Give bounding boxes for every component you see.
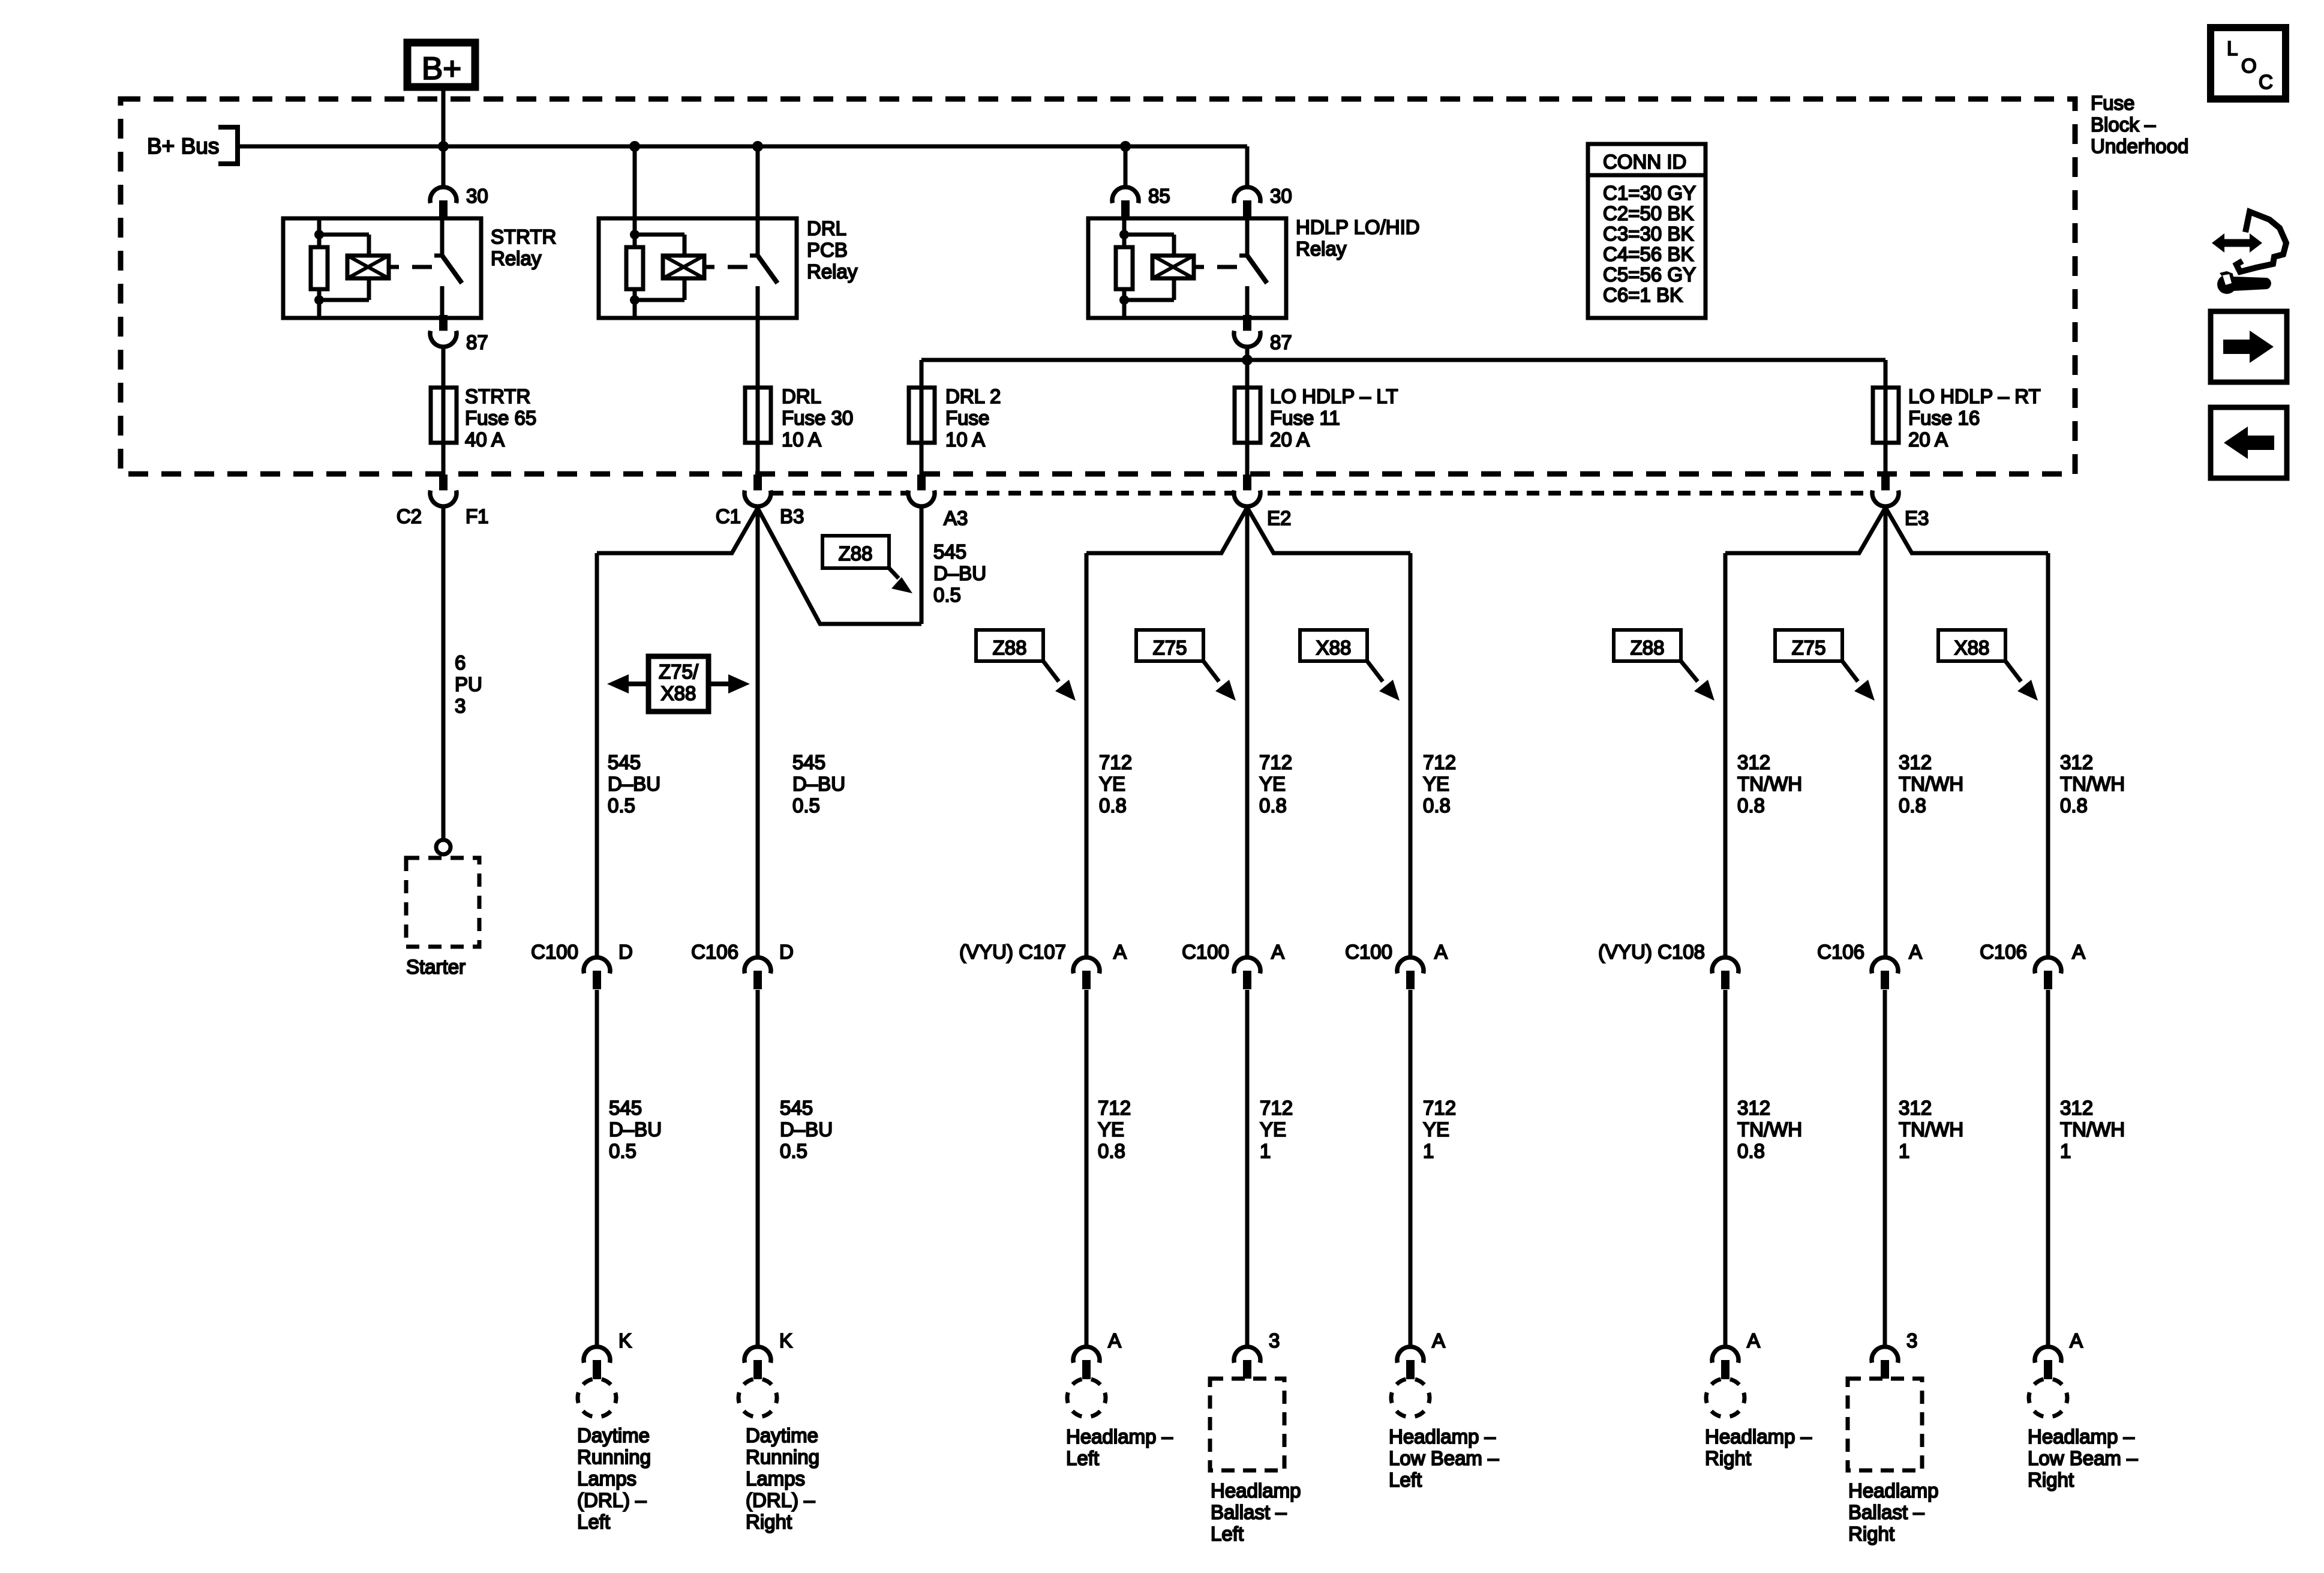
svg-text:312: 312: [1737, 1097, 1770, 1119]
svg-text:Fuse 30: Fuse 30: [782, 407, 853, 429]
svg-text:D: D: [618, 941, 633, 963]
svg-text:Headlamp –: Headlamp –: [2028, 1425, 2135, 1448]
svg-text:TN/WH: TN/WH: [1899, 773, 1963, 795]
svg-text:545: 545: [608, 751, 641, 773]
svg-text:A: A: [1432, 1329, 1445, 1352]
svg-text:87: 87: [466, 331, 488, 353]
svg-text:(DRL) –: (DRL) –: [746, 1489, 815, 1511]
svg-text:A: A: [1434, 941, 1448, 963]
svg-text:YE: YE: [1260, 1118, 1286, 1140]
svg-text:YE: YE: [1099, 773, 1125, 795]
svg-text:Left: Left: [1211, 1523, 1244, 1545]
svg-text:PCB: PCB: [807, 239, 848, 261]
svg-text:6: 6: [455, 652, 466, 674]
svg-text:Relay: Relay: [807, 260, 858, 283]
svg-text:Right: Right: [746, 1511, 792, 1533]
svg-text:Underhood: Underhood: [2091, 135, 2188, 157]
svg-text:Z88: Z88: [1631, 637, 1665, 659]
svg-text:A: A: [2070, 1329, 2083, 1352]
svg-text:TN/WH: TN/WH: [1737, 1118, 1802, 1140]
svg-text:10 A: 10 A: [945, 428, 985, 451]
svg-text:1: 1: [1260, 1140, 1271, 1162]
svg-text:87: 87: [1270, 331, 1292, 353]
svg-text:B+: B+: [422, 51, 461, 86]
svg-text:0.5: 0.5: [608, 794, 635, 816]
svg-text:D–BU: D–BU: [933, 562, 986, 584]
svg-text:0.8: 0.8: [1899, 794, 1926, 816]
svg-text:Z88: Z88: [993, 637, 1027, 659]
svg-text:312: 312: [1899, 1097, 1932, 1119]
svg-text:A: A: [1909, 941, 1922, 963]
svg-text:712: 712: [1098, 1097, 1131, 1119]
svg-text:Fuse: Fuse: [945, 407, 989, 429]
svg-text:YE: YE: [1423, 773, 1449, 795]
svg-text:L: L: [2227, 37, 2238, 59]
svg-text:0.8: 0.8: [1737, 1140, 1765, 1162]
svg-text:DRL 2: DRL 2: [945, 385, 1001, 407]
svg-text:1: 1: [2060, 1140, 2071, 1162]
svg-text:Fuse: Fuse: [2091, 92, 2134, 114]
svg-text:Headlamp: Headlamp: [1211, 1479, 1301, 1502]
svg-text:20 A: 20 A: [1908, 428, 1948, 451]
svg-text:YE: YE: [1259, 773, 1286, 795]
svg-text:K: K: [779, 1329, 792, 1352]
svg-text:545: 545: [933, 541, 966, 563]
svg-text:C100: C100: [1182, 941, 1229, 963]
svg-text:Relay: Relay: [491, 247, 542, 269]
svg-text:A: A: [1108, 1329, 1121, 1352]
svg-text:Left: Left: [1066, 1447, 1099, 1469]
svg-text:DRL: DRL: [782, 385, 821, 407]
svg-text:Right: Right: [1705, 1447, 1751, 1469]
svg-text:E3: E3: [1905, 507, 1929, 529]
svg-text:545: 545: [792, 751, 825, 773]
svg-text:F1: F1: [466, 505, 489, 527]
svg-text:C2=50 BK: C2=50 BK: [1603, 202, 1694, 224]
svg-text:0.8: 0.8: [1098, 1140, 1125, 1162]
svg-text:(VYU) C107: (VYU) C107: [959, 941, 1066, 963]
svg-text:D–BU: D–BU: [780, 1118, 833, 1140]
svg-text:Fuse 16: Fuse 16: [1908, 407, 1980, 429]
svg-text:X88: X88: [1954, 637, 1990, 659]
svg-text:C106: C106: [1817, 941, 1864, 963]
svg-text:C: C: [2259, 71, 2273, 93]
svg-text:LO HDLP – LT: LO HDLP – LT: [1270, 385, 1398, 407]
svg-text:Left: Left: [1389, 1469, 1422, 1491]
svg-text:TN/WH: TN/WH: [2060, 1118, 2125, 1140]
svg-text:Headlamp: Headlamp: [1848, 1479, 1938, 1502]
svg-text:D–BU: D–BU: [792, 773, 845, 795]
svg-text:Z88: Z88: [839, 542, 873, 565]
svg-text:A: A: [2072, 941, 2085, 963]
svg-text:0.8: 0.8: [1099, 794, 1127, 816]
svg-text:LO HDLP – RT: LO HDLP – RT: [1908, 385, 2041, 407]
svg-text:X88: X88: [661, 682, 696, 704]
svg-text:Lamps: Lamps: [746, 1467, 805, 1490]
svg-text:C3=30 BK: C3=30 BK: [1603, 223, 1694, 245]
svg-text:0.8: 0.8: [1423, 794, 1451, 816]
svg-text:YE: YE: [1423, 1118, 1449, 1140]
svg-text:(DRL) –: (DRL) –: [577, 1489, 647, 1511]
svg-text:312: 312: [1899, 751, 1932, 773]
svg-text:(VYU) C108: (VYU) C108: [1598, 941, 1705, 963]
svg-text:0.5: 0.5: [933, 584, 961, 606]
svg-text:Z75: Z75: [1792, 637, 1826, 659]
svg-text:1: 1: [1899, 1140, 1909, 1162]
svg-text:Starter: Starter: [406, 956, 466, 978]
svg-text:40 A: 40 A: [465, 428, 505, 451]
svg-text:712: 712: [1099, 751, 1132, 773]
svg-text:D–BU: D–BU: [609, 1118, 662, 1140]
svg-text:Fuse 11: Fuse 11: [1270, 407, 1340, 429]
svg-text:C2: C2: [397, 505, 422, 527]
svg-text:Lamps: Lamps: [577, 1467, 636, 1490]
svg-text:0.5: 0.5: [609, 1140, 636, 1162]
svg-text:0.5: 0.5: [780, 1140, 807, 1162]
svg-text:A: A: [1271, 941, 1284, 963]
svg-text:TN/WH: TN/WH: [1899, 1118, 1963, 1140]
svg-text:Ballast –: Ballast –: [1848, 1501, 1924, 1523]
svg-text:10 A: 10 A: [782, 428, 821, 451]
svg-text:712: 712: [1423, 1097, 1456, 1119]
svg-text:712: 712: [1259, 751, 1292, 773]
svg-text:X88: X88: [1316, 637, 1352, 659]
svg-text:312: 312: [2060, 751, 2093, 773]
svg-text:CONN ID: CONN ID: [1603, 151, 1686, 173]
svg-text:Running: Running: [746, 1446, 819, 1468]
svg-text:0.8: 0.8: [2060, 794, 2088, 816]
svg-text:C4=56 BK: C4=56 BK: [1603, 243, 1694, 265]
svg-text:C106: C106: [1980, 941, 2027, 963]
svg-text:YE: YE: [1098, 1118, 1124, 1140]
svg-text:C100: C100: [1345, 941, 1392, 963]
svg-text:C6=1 BK: C6=1 BK: [1603, 284, 1683, 306]
svg-text:312: 312: [1737, 751, 1770, 773]
svg-text:1: 1: [1423, 1140, 1434, 1162]
svg-text:712: 712: [1423, 751, 1456, 773]
svg-text:C1=30 GY: C1=30 GY: [1603, 182, 1696, 204]
svg-text:Daytime: Daytime: [746, 1424, 818, 1446]
svg-text:Z75/: Z75/: [659, 661, 699, 683]
svg-text:Running: Running: [577, 1446, 651, 1468]
svg-text:D–BU: D–BU: [608, 773, 660, 795]
svg-text:545: 545: [609, 1097, 642, 1119]
svg-text:712: 712: [1260, 1097, 1293, 1119]
svg-text:C1: C1: [716, 505, 741, 527]
svg-text:Headlamp –: Headlamp –: [1705, 1425, 1812, 1448]
svg-text:STRTR: STRTR: [491, 226, 556, 248]
svg-text:Z75: Z75: [1153, 637, 1187, 659]
svg-text:C106: C106: [691, 941, 738, 963]
svg-text:Block –: Block –: [2091, 113, 2156, 136]
svg-text:Low Beam –: Low Beam –: [1389, 1447, 1499, 1469]
svg-text:Right: Right: [1848, 1523, 1894, 1545]
svg-text:A: A: [1113, 941, 1127, 963]
svg-text:85: 85: [1148, 185, 1170, 207]
svg-text:Low Beam –: Low Beam –: [2028, 1447, 2138, 1469]
svg-text:3: 3: [455, 695, 466, 717]
svg-text:STRTR: STRTR: [465, 385, 530, 407]
svg-text:30: 30: [1270, 185, 1292, 207]
svg-text:30: 30: [466, 185, 488, 207]
svg-text:545: 545: [780, 1097, 813, 1119]
svg-text:312: 312: [2060, 1097, 2093, 1119]
svg-text:C100: C100: [531, 941, 578, 963]
svg-text:C5=56 GY: C5=56 GY: [1603, 263, 1696, 286]
svg-text:3: 3: [1269, 1329, 1280, 1352]
svg-text:A3: A3: [944, 507, 968, 529]
svg-text:K: K: [618, 1329, 632, 1352]
svg-text:O: O: [2241, 55, 2257, 77]
svg-text:E2: E2: [1267, 507, 1291, 529]
svg-text:A: A: [1747, 1329, 1760, 1352]
svg-text:TN/WH: TN/WH: [2060, 773, 2125, 795]
svg-text:Headlamp –: Headlamp –: [1066, 1425, 1173, 1448]
svg-text:B+ Bus: B+ Bus: [147, 134, 219, 158]
svg-text:D: D: [779, 941, 794, 963]
svg-text:B3: B3: [780, 505, 804, 527]
svg-text:PU: PU: [455, 673, 482, 695]
svg-text:TN/WH: TN/WH: [1737, 773, 1802, 795]
svg-text:Right: Right: [2028, 1469, 2074, 1491]
svg-text:20 A: 20 A: [1270, 428, 1310, 451]
svg-text:0.8: 0.8: [1737, 794, 1765, 816]
svg-text:Left: Left: [577, 1511, 610, 1533]
svg-text:3: 3: [1906, 1329, 1917, 1352]
svg-text:0.5: 0.5: [792, 794, 820, 816]
svg-text:DRL: DRL: [807, 217, 846, 239]
svg-text:HDLP LO/HID: HDLP LO/HID: [1296, 216, 1420, 238]
svg-text:Daytime: Daytime: [577, 1424, 650, 1446]
svg-text:0.8: 0.8: [1259, 794, 1287, 816]
svg-text:Relay: Relay: [1296, 238, 1347, 260]
svg-text:Ballast –: Ballast –: [1211, 1501, 1287, 1523]
svg-text:Fuse 65: Fuse 65: [465, 407, 536, 429]
svg-text:Headlamp –: Headlamp –: [1389, 1425, 1496, 1448]
